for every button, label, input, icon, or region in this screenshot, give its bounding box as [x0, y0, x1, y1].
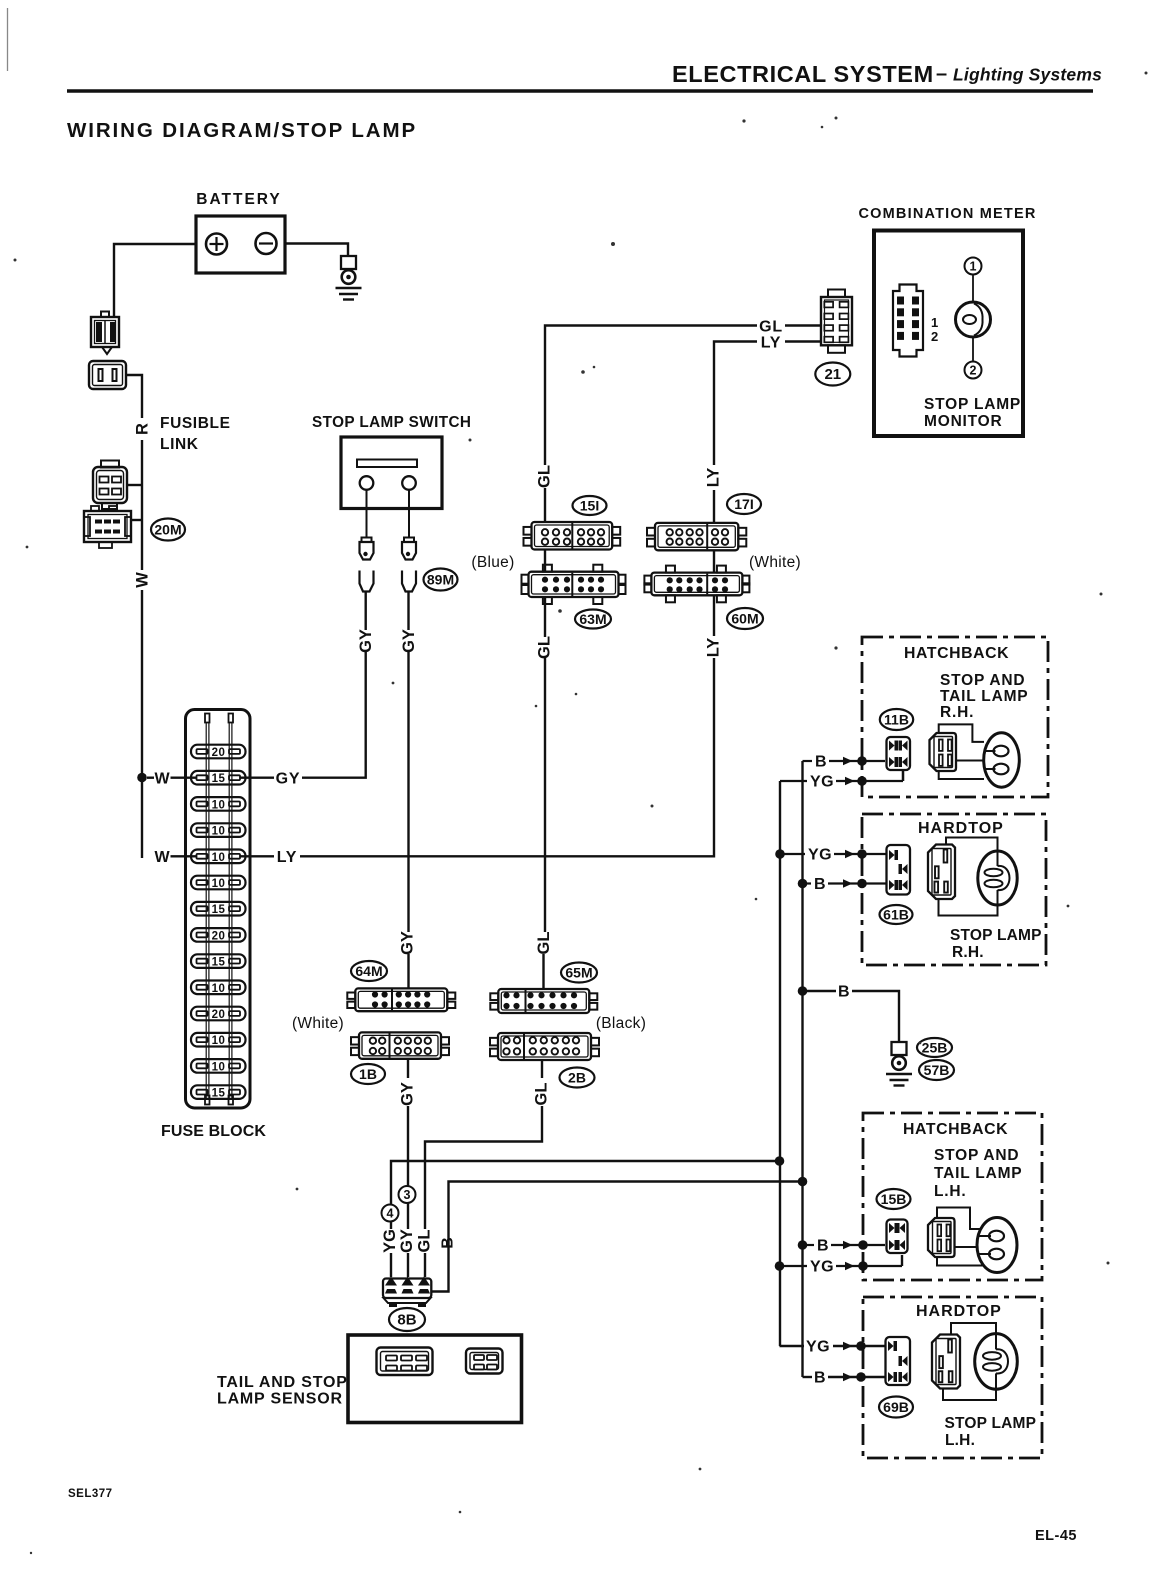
svg-text:BATTERY: BATTERY	[196, 191, 281, 208]
wire label GL	[536, 465, 554, 488]
fuse 10A	[191, 876, 246, 890]
stop lamp RH socket	[928, 845, 955, 900]
B bus wire	[801, 761, 803, 1377]
svg-text:B: B	[814, 876, 826, 893]
wire switch to bullet	[408, 490, 410, 538]
wire	[972, 275, 974, 303]
wire GY right to 64M	[407, 652, 409, 932]
hatchback LH enclosure	[863, 1113, 1042, 1280]
svg-text:63M: 63M	[579, 611, 606, 627]
svg-text:65M: 65M	[565, 965, 592, 981]
hatchback RH enclosure	[862, 637, 1048, 797]
figure code SEL377	[68, 1488, 113, 1500]
wire YG into hatchback RH / node	[780, 770, 903, 791]
wire 2B down	[541, 1060, 543, 1078]
hardtop RH enclosure	[862, 814, 1046, 965]
svg-text:15: 15	[212, 957, 226, 969]
svg-text:L.H.: L.H.	[945, 1432, 975, 1449]
svg-text:STOP LAMP: STOP LAMP	[950, 927, 1042, 944]
wire	[171, 855, 197, 857]
wire label GY	[399, 1082, 417, 1106]
connector 21	[821, 290, 852, 353]
svg-text:YG: YG	[810, 774, 834, 791]
svg-text:YG: YG	[381, 1229, 399, 1253]
connector 17I	[647, 523, 746, 550]
wire label W	[134, 572, 152, 588]
svg-text:R: R	[134, 423, 152, 435]
svg-text:STOP LAMP SWITCH: STOP LAMP SWITCH	[312, 414, 471, 431]
wire GL to 8B	[425, 1106, 542, 1229]
svg-text:10: 10	[212, 852, 226, 864]
svg-text:GL: GL	[416, 1230, 434, 1253]
svg-text:17I: 17I	[734, 496, 753, 512]
junction node W	[137, 773, 147, 783]
svg-text:10: 10	[212, 799, 226, 811]
fuse 20A	[191, 928, 246, 942]
wire 15I-63M	[544, 550, 546, 572]
stop lamp monitor label	[924, 396, 1021, 430]
svg-text:YG: YG	[806, 1339, 830, 1356]
fuse 20A	[191, 745, 246, 759]
wire label W	[154, 771, 170, 788]
svg-text:4: 4	[387, 1207, 394, 1221]
label 63M	[575, 610, 611, 629]
svg-text:LINK: LINK	[160, 436, 199, 453]
node 2 (circled)	[965, 362, 982, 379]
svg-text:COMBINATION METER: COMBINATION METER	[859, 206, 1037, 222]
svg-text:10: 10	[212, 1061, 226, 1073]
label 89M	[424, 569, 458, 591]
svg-text:61B: 61B	[883, 907, 909, 923]
wire	[542, 954, 544, 989]
svg-text:15B: 15B	[881, 1191, 907, 1207]
wire 60M down	[713, 595, 715, 636]
wire YG into hardtop RH	[780, 847, 887, 864]
connector (fusible link holder top)	[91, 312, 119, 355]
svg-text:11B: 11B	[884, 712, 909, 728]
svg-text:60M: 60M	[731, 611, 758, 627]
label 69B	[879, 1397, 913, 1418]
svg-text:LAMP SENSOR: LAMP SENSOR	[217, 1391, 343, 1408]
svg-text:15: 15	[212, 773, 226, 785]
fuse 10A	[191, 797, 246, 811]
connector 15B	[887, 1220, 908, 1254]
wire fuse to LY	[240, 855, 274, 857]
connector (fusible link holder 2)	[89, 361, 126, 389]
svg-text:64M: 64M	[355, 963, 382, 979]
wire label LY	[705, 638, 723, 658]
wire YG into hatchback LH	[780, 1255, 903, 1276]
hardtop LH enclosure	[863, 1297, 1042, 1458]
fuse 10A	[191, 981, 246, 995]
wire	[785, 324, 821, 326]
svg-text:(White): (White)	[292, 1015, 344, 1032]
wire	[424, 1253, 426, 1277]
svg-text:(Black): (Black)	[596, 1015, 646, 1032]
connector (fusible link)	[93, 461, 127, 510]
svg-text:HARDTOP: HARDTOP	[918, 820, 1004, 837]
svg-text:GL: GL	[536, 465, 554, 488]
wire battery + to fusible link connector	[114, 244, 196, 317]
wire W to fuse	[147, 777, 154, 779]
connector 65M	[490, 989, 597, 1013]
svg-text:W: W	[154, 771, 170, 788]
combination meter label	[859, 206, 1037, 222]
svg-text:15: 15	[212, 1088, 226, 1100]
wire LY 17I up to combination meter	[713, 490, 715, 522]
svg-text:LY: LY	[705, 468, 723, 488]
svg-text:2: 2	[931, 329, 938, 344]
label 11B	[880, 709, 913, 730]
fuse 20A	[191, 1007, 246, 1021]
svg-text:FUSIBLE: FUSIBLE	[160, 415, 231, 432]
svg-text:GL: GL	[535, 932, 553, 955]
wire label GL	[759, 319, 783, 336]
svg-text:HARDTOP: HARDTOP	[916, 1303, 1002, 1320]
connector 60M	[644, 566, 749, 603]
svg-text:TAIL LAMP: TAIL LAMP	[940, 688, 1028, 705]
battery	[196, 216, 285, 273]
svg-text:B: B	[838, 984, 850, 1001]
wire B into hatchback RH / node	[803, 754, 886, 771]
label 21	[815, 363, 850, 386]
svg-text:TAIL LAMP: TAIL LAMP	[934, 1165, 1022, 1182]
fuse 10A	[191, 823, 246, 837]
svg-text:B: B	[440, 1237, 457, 1249]
wire label R	[134, 423, 152, 435]
svg-text:B: B	[817, 1238, 829, 1255]
svg-text:15: 15	[212, 904, 226, 916]
svg-text:TAIL AND STOP: TAIL AND STOP	[217, 1374, 348, 1391]
svg-text:10: 10	[212, 1035, 226, 1047]
svg-text:GY: GY	[399, 931, 417, 955]
wire GY right	[407, 592, 409, 631]
label 57B	[919, 1060, 954, 1080]
label 17I	[727, 494, 761, 514]
YG bus wire	[779, 781, 781, 1346]
label 15I	[573, 496, 607, 515]
label 60M	[727, 608, 763, 629]
svg-text:89M: 89M	[427, 572, 454, 588]
wire GL 15I up to combination meter	[544, 488, 546, 522]
svg-text:B: B	[815, 754, 827, 771]
wire label GL	[536, 636, 554, 659]
wire label LY	[277, 849, 298, 866]
svg-text:69B: 69B	[883, 1399, 909, 1415]
svg-text:1: 1	[970, 260, 977, 274]
label 8B	[389, 1308, 425, 1331]
fuse block label	[161, 1123, 266, 1140]
wire label W	[154, 849, 170, 866]
wire YG into hardtop LH	[780, 1339, 887, 1356]
svg-text:HATCHBACK: HATCHBACK	[904, 645, 1009, 662]
wire LY to connector 60M	[300, 658, 714, 856]
wire socket to bulb (bottom)	[939, 771, 984, 779]
svg-text:1B: 1B	[359, 1066, 377, 1082]
stop and tail lamp RH socket	[930, 733, 957, 771]
wire label GY	[357, 629, 375, 653]
wire 17I-60M	[713, 550, 715, 572]
label 25B	[917, 1038, 952, 1057]
wire	[785, 340, 821, 342]
wire socket to bulb (bottom)	[937, 1257, 983, 1266]
svg-text:LY: LY	[705, 638, 723, 658]
tail and stop lamp sensor	[348, 1335, 522, 1423]
label 64M	[351, 961, 387, 981]
svg-text:R.H.: R.H.	[940, 704, 974, 721]
connector 15I	[524, 522, 621, 550]
svg-text:GY: GY	[398, 1229, 416, 1253]
label (White)	[749, 554, 801, 571]
wire label GL	[416, 1230, 434, 1253]
wire socket to bulb (top)	[937, 1208, 981, 1230]
node B	[798, 879, 808, 889]
wire B into hardtop LH	[803, 1370, 887, 1387]
wire label LY	[761, 335, 782, 352]
wire	[141, 590, 143, 777]
svg-text:GL: GL	[533, 1083, 551, 1106]
wire label YG	[381, 1229, 399, 1253]
wire label GY	[276, 771, 301, 788]
wire B to body ground	[803, 984, 900, 1043]
bullet terminal female	[402, 571, 416, 592]
wire	[545, 326, 757, 466]
svg-text:EL-45: EL-45	[1035, 1528, 1077, 1544]
svg-text:21: 21	[824, 366, 841, 383]
fusible link label	[160, 415, 231, 453]
stop lamp RH bulb	[978, 851, 1017, 905]
wire 1B down	[407, 1059, 409, 1078]
svg-text:GL: GL	[536, 636, 554, 659]
svg-text:GY: GY	[276, 771, 301, 788]
wire	[407, 1253, 409, 1277]
bullet terminal female	[360, 571, 374, 592]
page edge tick mark	[7, 8, 9, 71]
svg-text:20: 20	[212, 747, 226, 759]
node B	[798, 1177, 808, 1187]
header title ELECTRICAL SYSTEM - Lighting Systems	[672, 61, 1102, 87]
page number EL-45	[1035, 1528, 1077, 1544]
connector 61B	[887, 845, 911, 895]
wire	[972, 337, 974, 362]
connector 69B	[886, 1337, 911, 1385]
wire socket to bulb (top)	[939, 724, 984, 742]
node YG	[775, 1261, 785, 1271]
svg-text:2: 2	[970, 364, 977, 378]
wire	[390, 1253, 392, 1277]
svg-text:HATCHBACK: HATCHBACK	[903, 1121, 1008, 1138]
svg-text:25B: 25B	[922, 1040, 948, 1056]
wire label GL	[535, 932, 553, 955]
wire	[141, 778, 143, 859]
node 1 (circled)	[965, 258, 982, 275]
node 4 (circled)	[382, 1205, 399, 1222]
svg-text:YG: YG	[810, 1259, 834, 1276]
wire socket to bulb (mid)	[956, 760, 984, 762]
svg-text:LY: LY	[277, 849, 298, 866]
svg-text:10: 10	[212, 878, 226, 890]
svg-text:STOP LAMP: STOP LAMP	[945, 1415, 1037, 1432]
wire GY left	[365, 592, 367, 631]
svg-text:B: B	[814, 1370, 826, 1387]
meter connector (pins 1 2)	[893, 285, 938, 357]
stop and tail lamp LH bulb	[977, 1218, 1017, 1273]
wire label GY	[400, 629, 418, 653]
wire bulb bottom to socket	[943, 1389, 996, 1401]
wire	[141, 440, 143, 485]
svg-text:20: 20	[212, 1009, 226, 1021]
svg-text:WIRING DIAGRAM/STOP LAMP: WIRING DIAGRAM/STOP LAMP	[67, 119, 417, 142]
header rule	[67, 89, 1093, 93]
wire B from right bus to 8B	[432, 1182, 803, 1292]
wire switch to bullet	[366, 490, 368, 538]
fuse 10A	[191, 1033, 246, 1047]
label 20M	[151, 519, 185, 541]
svg-text:ELECTRICAL SYSTEM: ELECTRICAL SYSTEM	[672, 61, 934, 87]
label 15B	[877, 1189, 911, 1209]
fuse 10A	[191, 1059, 246, 1073]
stop lamp LH socket	[932, 1335, 960, 1389]
combination meter	[874, 231, 1023, 437]
node B	[798, 986, 808, 996]
wire label LY	[705, 468, 723, 488]
svg-text:10: 10	[212, 826, 226, 838]
svg-text:STOP AND: STOP AND	[940, 672, 1025, 689]
stop lamp LH bulb	[975, 1334, 1018, 1390]
wire battery - to ground	[285, 244, 348, 257]
label 61B	[880, 905, 913, 924]
wire bulb bottom to socket	[939, 899, 998, 916]
connector 20M	[84, 506, 131, 548]
label (Black)	[596, 1015, 646, 1032]
stop lamp switch	[341, 437, 442, 509]
node YG	[775, 849, 785, 859]
stop lamp monitor bulb	[956, 302, 991, 337]
wire B into hatchback LH	[803, 1238, 886, 1255]
wire socket to bulb top	[946, 838, 998, 852]
connector 8B	[383, 1277, 431, 1308]
fuse 15A	[191, 1085, 246, 1099]
ground (body, 25B/57B)	[886, 1042, 912, 1086]
svg-text:YG: YG	[808, 847, 832, 864]
wire label GY	[398, 1229, 416, 1253]
connector 63M	[522, 565, 626, 604]
svg-text:57B: 57B	[924, 1062, 950, 1078]
svg-text:GY: GY	[357, 629, 375, 653]
wire GY to 8B	[407, 1106, 409, 1186]
stop lamp switch label	[312, 414, 471, 431]
label 1B	[351, 1064, 385, 1084]
wire label GY	[399, 931, 417, 955]
label (White)	[292, 1015, 344, 1032]
svg-text:L.H.: L.H.	[934, 1183, 966, 1200]
svg-text:STOP AND: STOP AND	[934, 1147, 1019, 1164]
fuse 15A	[191, 902, 246, 916]
fuse 10A	[191, 850, 246, 864]
svg-text:3: 3	[404, 1188, 411, 1202]
tail and stop lamp sensor label	[217, 1374, 348, 1408]
stop and tail lamp LH socket	[928, 1218, 955, 1257]
wire	[407, 954, 409, 988]
fuse block body	[186, 710, 251, 1109]
wire	[407, 1203, 409, 1229]
connector 1B	[351, 1032, 449, 1058]
svg-text:W: W	[154, 849, 170, 866]
svg-text:20: 20	[212, 930, 226, 942]
section title WIRING DIAGRAM/STOP LAMP	[67, 119, 417, 142]
wire	[171, 777, 197, 779]
svg-text:SEL377: SEL377	[68, 1488, 113, 1500]
svg-text:GY: GY	[400, 629, 418, 653]
node 3 (circled)	[399, 1186, 416, 1203]
svg-text:W: W	[134, 572, 152, 588]
label (Blue)	[471, 554, 514, 571]
fuse 15A	[191, 771, 246, 785]
wire YG from right bus to sensor	[391, 1161, 780, 1204]
svg-text:10: 10	[212, 983, 226, 995]
wire 63M down	[544, 597, 546, 637]
wire label B	[440, 1237, 457, 1249]
wire fuse to GY	[240, 777, 274, 779]
wire R: connector to fusible link connector	[126, 375, 142, 418]
svg-text:STOP LAMP: STOP LAMP	[924, 396, 1021, 413]
svg-text:1: 1	[931, 315, 938, 330]
stop and tail lamp RH bulb	[984, 733, 1020, 787]
svg-text:2B: 2B	[568, 1070, 586, 1086]
svg-text:(Blue): (Blue)	[471, 554, 514, 571]
wire GY to stop lamp switch	[302, 652, 366, 778]
connector 2B	[490, 1033, 599, 1060]
node B	[798, 1240, 808, 1250]
wire	[390, 1222, 392, 1230]
wire socket to bulb top	[951, 1323, 996, 1335]
svg-text:MONITOR: MONITOR	[924, 413, 1003, 430]
bullet terminal male	[360, 538, 374, 560]
svg-text:Lighting Systems: Lighting Systems	[953, 65, 1102, 85]
battery label	[196, 191, 281, 208]
wire connector to vertical	[127, 484, 143, 486]
svg-text:GL: GL	[759, 319, 783, 336]
svg-text:(White): (White)	[749, 554, 801, 571]
svg-text:LY: LY	[761, 335, 782, 352]
svg-text:8B: 8B	[397, 1312, 416, 1329]
wire YG up into connector	[902, 770, 904, 781]
bullet terminal male	[402, 538, 416, 560]
fuse 15A	[191, 954, 246, 968]
svg-text:GY: GY	[399, 1082, 417, 1106]
svg-text:15I: 15I	[580, 498, 599, 514]
svg-text:FUSE BLOCK: FUSE BLOCK	[161, 1123, 266, 1140]
svg-text:20M: 20M	[154, 522, 181, 538]
wire GL to 65M	[544, 658, 546, 932]
label 65M	[561, 963, 597, 983]
wire 20M to fuse block (W)	[131, 485, 142, 570]
wire	[714, 342, 757, 466]
node YG	[775, 1156, 785, 1166]
svg-text:R.H.: R.H.	[952, 944, 984, 961]
connector 11B	[887, 737, 911, 770]
label 2B	[560, 1068, 595, 1088]
ground (battery)	[336, 256, 362, 300]
connector 64M	[347, 988, 455, 1011]
wire label GL	[533, 1083, 551, 1106]
wire socket to bulb (mid)	[955, 1246, 978, 1248]
svg-text:–: –	[936, 63, 947, 85]
wire B into hardtop RH	[803, 876, 887, 893]
